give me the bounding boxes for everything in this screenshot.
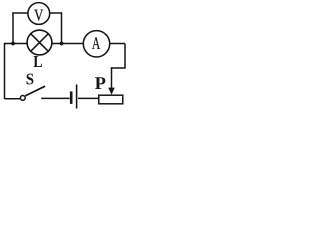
ammeter A circle (83, 31, 109, 57)
ammeter A letter (92, 37, 100, 49)
node junction dot left (11, 42, 15, 46)
label S (27, 74, 34, 85)
wire switch to battery (41, 97, 69, 99)
rheostat wiper arrowhead (108, 88, 115, 95)
lamp L circle (27, 30, 52, 55)
label L (33, 56, 41, 67)
lamp cross diagonal 2 (31, 34, 48, 51)
wire lower-left vertical (4, 43, 6, 99)
voltmeter V circle (28, 3, 50, 25)
lamp cross diagonal 1 (31, 34, 48, 51)
wire jog horizontal (111, 67, 126, 69)
switch S blade (25, 86, 45, 96)
wire top horizontal (voltmeter branch) (12, 12, 61, 14)
wire upper-left vertical (12, 12, 14, 43)
wire upper-right vertical (voltmeter branch drop) (61, 12, 63, 43)
wire arrow shaft (111, 67, 113, 89)
voltmeter V letter (34, 10, 43, 21)
rheostat P rectangle (99, 95, 123, 104)
wire right vertical (124, 44, 126, 69)
battery negative plate (short thick) (70, 91, 73, 104)
label P (95, 77, 105, 89)
battery positive plate (long thin) (76, 85, 78, 109)
wire main row (lamp-ammeter) (5, 43, 126, 45)
wire battery to rheostat (78, 97, 99, 99)
wire bottom-left to switch (5, 98, 21, 100)
node junction dot right (60, 42, 64, 46)
switch S pivot circle (20, 96, 25, 101)
